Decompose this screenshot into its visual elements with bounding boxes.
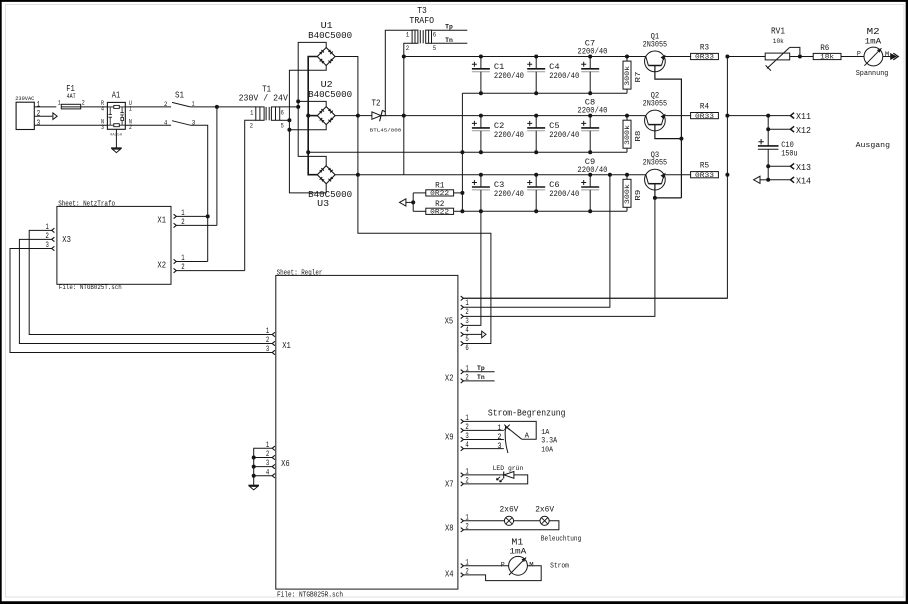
svg-text:3: 3 (37, 119, 41, 128)
node X6 tie (252, 456, 256, 460)
svg-text:2: 2 (250, 122, 253, 129)
node Q3 base (653, 196, 657, 200)
transformer T1 230V/24V (239, 84, 289, 129)
svg-text:R3: R3 (700, 42, 709, 52)
svg-text:P: P (501, 562, 505, 569)
svg-text:U1: U1 (321, 21, 333, 31)
svg-text:T2: T2 (372, 98, 381, 108)
node C6 top (534, 173, 538, 177)
svg-text:RV1: RV1 (771, 27, 785, 37)
svg-text:150u: 150u (781, 149, 797, 158)
svg-text:2x6V: 2x6V (535, 506, 554, 515)
svg-text:2200/40: 2200/40 (494, 130, 524, 140)
wire T2 cathode to T3 pin1 (381, 110, 385, 115)
svg-text:2x6V: 2x6V (500, 506, 519, 515)
svg-text:File: NTGB025R.sch: File: NTGB025R.sch (277, 591, 343, 599)
svg-text:230VAC: 230VAC (15, 95, 35, 102)
sheet NetzTrafo box (57, 201, 171, 292)
svg-text:X2: X2 (157, 261, 166, 271)
svg-text:Sheet: Regler: Sheet: Regler (277, 270, 323, 278)
svg-text:2: 2 (266, 336, 270, 345)
wire X6 pin (254, 466, 273, 468)
svg-text:5: 5 (465, 335, 469, 344)
lamps Beleuchtung 2x6V (463, 506, 581, 544)
svg-text:2: 2 (497, 433, 501, 442)
node X1.1 (206, 214, 210, 218)
svg-text:0R33: 0R33 (695, 172, 714, 179)
node X12 branch (766, 127, 770, 131)
wire sense stub (406, 201, 413, 203)
wire rail2 (+) (404, 115, 646, 117)
svg-text:X7: X7 (445, 480, 454, 490)
svg-text:6: 6 (281, 110, 284, 117)
sheet port X5 (Regler) (445, 296, 469, 353)
svg-text:C6: C6 (549, 181, 559, 190)
wire X13 (768, 162, 811, 173)
svg-text:B40C5000: B40C5000 (308, 190, 352, 200)
node X14 branch (766, 178, 770, 182)
svg-text:2200/40: 2200/40 (577, 47, 607, 57)
wire AC1 vertical (U1/U2/U3 tops) (298, 42, 326, 165)
svg-text:3: 3 (101, 124, 104, 131)
svg-text:0R33: 0R33 (695, 113, 714, 120)
net Tn stub at X2 (463, 374, 494, 381)
node C1 top (479, 55, 483, 59)
node C7 top (588, 55, 592, 59)
wire X3.3 to Regler X1.3 (10, 249, 272, 353)
wire X5.6 to bridge DC+ node (358, 175, 491, 344)
wire C10 top vertical (767, 116, 769, 146)
wire X14 to net arrow (760, 179, 768, 181)
wire X11 (768, 111, 811, 122)
svg-text:3: 3 (465, 317, 469, 326)
capacitor C10 150u (758, 139, 798, 180)
svg-text:C3: C3 (494, 181, 504, 190)
wire X14 (768, 175, 811, 186)
svg-text:4: 4 (465, 326, 469, 335)
node R9 top (625, 173, 629, 177)
svg-text:R4: R4 (700, 101, 709, 111)
svg-text:300k: 300k (624, 125, 631, 145)
svg-text:Sheet: NetzTrafo: Sheet: NetzTrafo (58, 201, 115, 209)
svg-text:X6: X6 (281, 459, 290, 469)
capacitor C8 2200/40 (577, 99, 607, 153)
svg-text:X4: X4 (445, 570, 454, 580)
svg-text:1: 1 (266, 327, 270, 336)
svg-text:Strom: Strom (550, 562, 569, 570)
wire R4 node to X11/X12 node (727, 115, 768, 117)
svg-text:300k: 300k (624, 66, 631, 86)
svg-text:R9: R9 (635, 189, 643, 201)
net arrow X5.5 (482, 331, 486, 338)
node X11 branch (766, 114, 770, 118)
wire F1 to A1 (81, 106, 108, 108)
capacitor C2 2200/40 (472, 116, 524, 153)
node T3 rail1 (402, 55, 406, 59)
capacitor C1 2200/40 (472, 57, 524, 94)
wire cap bottom rail row1 (462, 92, 627, 94)
svg-text:R7: R7 (635, 72, 643, 83)
svg-text:2200/40: 2200/40 (549, 130, 579, 140)
wire R6 to M2 (841, 56, 864, 58)
svg-text:2200/40: 2200/40 (577, 165, 607, 175)
ground below A1 (111, 147, 122, 149)
wire Q1 base (655, 66, 682, 198)
wire T1 pin6 to AC node (280, 106, 299, 108)
node C4 top (534, 55, 538, 59)
svg-text:R5: R5 (700, 161, 709, 171)
svg-text:6: 6 (433, 32, 437, 39)
wire 230VAC pin3 to A1 (34, 124, 107, 126)
sheet port X2 (NetzTrafo) (157, 254, 184, 273)
node C5 bottom (534, 150, 538, 154)
wire U2 plus stub (335, 115, 358, 117)
wire T2 cathode to rail2 (381, 115, 404, 117)
svg-text:C1: C1 (494, 63, 504, 72)
transistor Q2 2N3055 (643, 91, 668, 131)
svg-text:300k: 300k (624, 184, 631, 204)
svg-text:Ausgang: Ausgang (856, 142, 890, 150)
node R4 output (725, 114, 729, 118)
wire Q3 base to X5.3 (463, 198, 655, 317)
wire X5.4 to neg rail3 (463, 211, 481, 325)
svg-text:2200/40: 2200/40 (549, 189, 579, 199)
wire U2 minus stub (308, 115, 317, 117)
svg-text:R1: R1 (435, 181, 444, 191)
svg-text:M2: M2 (867, 27, 880, 37)
node T2 rail2 (402, 114, 406, 118)
sheet port X1 (Regler) (266, 327, 291, 355)
wire X5.2 to rail3 (463, 175, 610, 308)
svg-text:2: 2 (465, 308, 469, 317)
node C3 top (479, 173, 483, 177)
wire U3 plus stub (335, 174, 358, 176)
node X5.2 rail3 (608, 173, 612, 177)
svg-text:Tn: Tn (445, 37, 453, 44)
sheet port X6 (Regler) (266, 441, 290, 478)
svg-text:S1: S1 (175, 89, 184, 100)
net arrow at R1R2 (400, 199, 406, 206)
wire R1/R2 left tie (412, 193, 414, 211)
svg-text:Spannung: Spannung (856, 70, 889, 78)
svg-text:C2: C2 (494, 122, 504, 131)
connector 230VAC (15, 95, 40, 130)
wire T1 pin2 down to sheet X2.2 (245, 120, 256, 270)
transistor Q1 2N3055 (643, 32, 668, 72)
wire AC2 to U2 bottom (289, 125, 326, 130)
svg-text:X14: X14 (796, 175, 811, 186)
capacitor C6 2200/40 (527, 175, 579, 212)
node C9 bottom (588, 209, 592, 213)
wire rail1 right of Q1 (664, 56, 691, 58)
svg-text:U2: U2 (321, 80, 333, 90)
svg-text:18k: 18k (820, 54, 834, 61)
node R1 right (460, 191, 464, 195)
wire S1 pin1 to T1 pin1 (190, 106, 256, 108)
wire T1 pin5 to AC node (280, 119, 290, 121)
meter M2 1mA (856, 27, 890, 78)
net Tp stub at X2 (463, 365, 494, 372)
node C2 bottom (479, 150, 483, 154)
svg-text:TRAFO: TRAFO (409, 16, 434, 26)
svg-text:1mA: 1mA (509, 548, 526, 557)
wire 230VAC pin1 to F1 (34, 106, 56, 108)
svg-text:X5: X5 (445, 316, 454, 326)
sheet port X4 (Regler) (445, 558, 469, 579)
svg-text:1A: 1A (541, 429, 550, 437)
wire A1 to S1 top (125, 106, 171, 108)
node R1R2 sense (411, 200, 415, 204)
node C8 top (588, 114, 592, 118)
svg-text:P: P (857, 51, 861, 58)
bridge rectifier U2 (308, 80, 352, 125)
node RV1 wiper (798, 55, 802, 59)
svg-text:X9: X9 (445, 432, 454, 442)
svg-text:Strom-Begrenzung: Strom-Begrenzung (488, 408, 566, 418)
wire AC2 vertical (U1/U2/U3 bottoms) (289, 66, 326, 193)
sheet port X2 (Regler) Tp Tn (445, 364, 469, 383)
sheet port X3 (NetzTrafo) (46, 223, 71, 251)
svg-text:A1: A1 (112, 89, 121, 100)
svg-text:C4: C4 (549, 63, 559, 72)
wire X6 pin (254, 457, 273, 459)
sheet port X7 (Regler) (445, 468, 469, 490)
node R3 output (725, 55, 729, 59)
svg-text:Tp: Tp (445, 23, 453, 30)
rotary switch current range (463, 421, 557, 454)
svg-text:R6: R6 (820, 43, 829, 53)
svg-text:0R22: 0R22 (430, 209, 449, 216)
svg-text:C5: C5 (549, 122, 559, 131)
wire S1 pin3 down to sheet X1.1/X2.1 (190, 125, 208, 261)
sheet port X9 (Regler) (445, 414, 469, 451)
ground at X6 (248, 484, 259, 486)
node R5 output (725, 173, 729, 177)
svg-text:2200/40: 2200/40 (577, 106, 607, 116)
wire X1.2 vertical to S1 node (216, 107, 218, 225)
wire AC1 to U2 top (298, 101, 326, 106)
svg-text:3: 3 (266, 345, 270, 354)
resistor R2 0R22 (413, 199, 462, 216)
node U3 plus (356, 173, 360, 177)
wire X1.1 to mains N (176, 215, 207, 217)
wire rail3 right of Q3 (664, 174, 691, 176)
svg-text:R8: R8 (635, 130, 643, 142)
svg-text:B40C5000: B40C5000 (308, 31, 352, 41)
wire rail3 (+) (358, 174, 646, 176)
resistor R1 0R22 (413, 181, 462, 198)
node X6 tie (252, 465, 256, 469)
svg-text:0R33: 0R33 (695, 54, 714, 61)
svg-text:2200/40: 2200/40 (494, 189, 524, 199)
svg-text:Tp: Tp (477, 365, 485, 372)
svg-text:X12: X12 (796, 125, 811, 136)
wire Q2 base (655, 125, 682, 139)
node C9 top (588, 173, 592, 177)
bridge rectifier U3 (308, 166, 352, 209)
transformer T3 TRAFO (406, 6, 437, 52)
svg-text:1: 1 (250, 110, 253, 117)
wire T3 pin2 to rails (404, 43, 412, 174)
svg-text:BTL45/800: BTL45/800 (370, 128, 402, 134)
svg-text:2200/40: 2200/40 (549, 71, 579, 81)
svg-text:2200/40: 2200/40 (494, 71, 524, 81)
svg-text:2: 2 (37, 110, 41, 119)
node C7 bottom (588, 91, 592, 95)
svg-text:X13: X13 (796, 162, 811, 173)
line filter A1 (101, 89, 132, 130)
svg-text:Tn: Tn (477, 374, 485, 381)
wire X1.2 (176, 224, 217, 226)
diode T2 BTL45/800 (358, 98, 402, 133)
meter M1 1mA Strom (463, 538, 569, 581)
node C1 bottom (479, 91, 483, 95)
wire X5.1 to output node (463, 297, 727, 299)
net arrow at X14 (754, 176, 760, 183)
wire A1 to ground (115, 129, 117, 148)
svg-text:5: 5 (281, 122, 284, 129)
svg-text:2N3055: 2N3055 (643, 100, 668, 109)
svg-text:10A: 10A (541, 447, 554, 455)
LED green (463, 465, 527, 484)
bridge rectifier U1 (308, 21, 352, 66)
node R8 top (625, 114, 629, 118)
wire 230VAC pin2 earth stub (34, 113, 57, 120)
svg-text:A: A (525, 433, 530, 441)
wire output vertical (463, 57, 727, 299)
node R7 top (625, 55, 629, 59)
svg-text:X8: X8 (445, 524, 454, 534)
svg-text:Beleuchtung: Beleuchtung (541, 536, 582, 544)
wire negative bus vertical (461, 93, 463, 211)
svg-text:1: 1 (58, 100, 61, 107)
svg-text:X2: X2 (445, 373, 454, 383)
wire rail2 right of Q2 (664, 115, 691, 117)
sheet port X1 (NetzTrafo) (157, 209, 184, 228)
wire X6 common (254, 448, 273, 485)
resistor R6 18k (813, 43, 841, 61)
svg-text:2: 2 (406, 45, 410, 52)
svg-text:File: NTGB025T.sch: File: NTGB025T.sch (59, 284, 122, 291)
node S1/T1/X1.2 junction (215, 105, 219, 109)
svg-text:T3: T3 (417, 6, 427, 16)
svg-text:LED grün: LED grün (493, 465, 524, 473)
node neg bus row2 (460, 150, 464, 154)
node C2 top (479, 114, 483, 118)
svg-text:0R22: 0R22 (430, 190, 449, 197)
svg-text:X1: X1 (282, 341, 291, 351)
svg-text:X11: X11 (796, 111, 811, 122)
net Tp stub (432, 23, 468, 30)
svg-text:M1: M1 (511, 538, 523, 548)
node C5 top (534, 114, 538, 118)
sheet port X8 (Regler) (445, 513, 469, 533)
node X13 branch (766, 164, 770, 168)
wire DC- tie (bridge left corners) (308, 57, 317, 175)
sheet Regler box (276, 270, 458, 600)
wire rail1 (+) (404, 56, 646, 58)
svg-text:2N3055: 2N3055 (643, 41, 668, 50)
node T1.5 (287, 118, 291, 122)
svg-text:U3: U3 (317, 199, 329, 209)
svg-text:230V / 24V: 230V / 24V (239, 93, 289, 104)
fuse F1 4AT (58, 83, 85, 109)
potentiometer RV1 10k (727, 27, 813, 71)
node DC- to cap rail2 (306, 150, 310, 154)
resistor R5 0R33 (691, 161, 719, 179)
node C4 bottom (534, 91, 538, 95)
capacitor C5 2200/40 (527, 116, 579, 153)
svg-text:B40C5000: B40C5000 (308, 90, 352, 100)
svg-text:M: M (529, 562, 533, 569)
svg-text:1: 1 (497, 424, 501, 433)
resistor R7 300k (623, 57, 643, 94)
svg-text:1: 1 (406, 32, 410, 39)
wire A1 to S1 bottom (125, 124, 171, 126)
svg-text:1: 1 (37, 101, 41, 110)
wire X5.5 stub (463, 333, 481, 335)
node Q2 base tie (679, 137, 683, 141)
wire X3.2 to Regler X1.2 (19, 239, 272, 343)
switch S1 (164, 89, 195, 126)
svg-text:1mA: 1mA (865, 38, 882, 47)
wire cap bottom rail row3 (462, 210, 627, 212)
resistor R9 300k (623, 175, 643, 212)
svg-text:10k: 10k (773, 38, 784, 45)
wire X2.2 (176, 270, 244, 272)
svg-text:5: 5 (433, 45, 437, 52)
wire X12 (768, 125, 811, 136)
svg-text:2: 2 (164, 101, 167, 108)
wire cap bottom rail row2 (308, 151, 627, 153)
node U2 plus (356, 114, 360, 118)
wire M2 to net arrow (883, 56, 890, 58)
svg-text:6: 6 (465, 344, 469, 353)
svg-text:4: 4 (101, 106, 104, 113)
svg-text:2: 2 (82, 100, 85, 107)
net arrow Spannung (890, 53, 897, 60)
wire X2.1 (176, 261, 207, 263)
svg-text:1: 1 (465, 299, 469, 308)
svg-text:3: 3 (497, 442, 501, 451)
node AC1-U2 branch (296, 99, 300, 103)
node C6 bottom (534, 209, 538, 213)
node neg bus row3 (460, 209, 464, 213)
resistor R8 300k (623, 116, 643, 153)
svg-text:R2: R2 (435, 199, 444, 209)
wire X6 pin (254, 475, 273, 477)
transistor Q3 2N3055 (643, 150, 668, 190)
wire DC+ tie (bridge right corners) (335, 57, 358, 175)
svg-text:X1: X1 (157, 216, 166, 226)
node C3 bottom (479, 209, 483, 213)
node C8 bottom (588, 150, 592, 154)
node U2 minus (306, 114, 310, 118)
node AC2-U2 branch (287, 128, 291, 132)
wire X3.1 to Regler X1.1 (29, 230, 272, 334)
capacitor C4 2200/40 (527, 57, 579, 94)
svg-text:4: 4 (164, 119, 167, 126)
svg-text:3.3A: 3.3A (541, 438, 557, 446)
svg-text:4AT: 4AT (67, 93, 76, 100)
capacitor C9 2200/40 (577, 158, 607, 212)
wire Q3 base (655, 184, 682, 198)
node T1.6 (296, 105, 300, 109)
capacitor C7 2200/40 (577, 40, 607, 94)
resistor R4 0R33 (691, 101, 719, 119)
capacitor C3 2200/40 (472, 175, 524, 212)
node X6 tie (252, 474, 256, 478)
